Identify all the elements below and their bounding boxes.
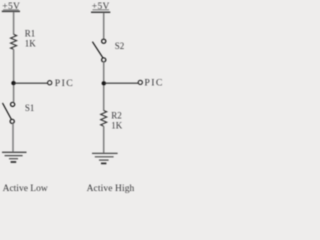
junction dot (right PIC node) bbox=[102, 81, 106, 85]
wire: R2 bottom to ground (right) bbox=[103, 126, 105, 153]
switch S2 bbox=[102, 39, 106, 43]
ground (left) bbox=[2, 151, 27, 153]
resistor R2 bbox=[101, 111, 107, 127]
resistor R1 bbox=[11, 34, 17, 49]
power bar +5V right bbox=[91, 11, 110, 13]
svg-text:PIC: PIC bbox=[55, 78, 74, 89]
svg-text:+5V: +5V bbox=[2, 2, 20, 12]
pin circle PIC (right) bbox=[138, 80, 142, 84]
power bar +5V left bbox=[2, 10, 20, 12]
svg-text:PIC: PIC bbox=[144, 78, 163, 89]
svg-text:S2: S2 bbox=[115, 41, 125, 51]
wire: R1 bottom to S1 top, through PIC junction bbox=[13, 49, 15, 102]
switch S1 bbox=[11, 102, 15, 106]
junction dot (left PIC node) bbox=[11, 81, 15, 85]
ground (right) bbox=[92, 152, 118, 154]
svg-text:R2: R2 bbox=[111, 111, 122, 121]
svg-text:1K: 1K bbox=[25, 39, 37, 49]
wire: S2 bottom to R2 top, through PIC junction bbox=[103, 62, 105, 111]
wire: junction to PIC pin circle (left) bbox=[14, 82, 48, 84]
pin circle PIC (left) bbox=[48, 81, 52, 85]
wire: S1 bottom to ground (left) bbox=[12, 124, 14, 152]
svg-text:Active Low: Active Low bbox=[3, 184, 48, 194]
svg-text:R1: R1 bbox=[25, 29, 36, 39]
wire: +5V bar to R1 top bbox=[13, 12, 15, 35]
svg-text:S1: S1 bbox=[25, 103, 35, 113]
wire: junction to PIC pin circle (right) bbox=[104, 82, 138, 84]
svg-text:Active High: Active High bbox=[87, 184, 135, 194]
svg-text:+5V: +5V bbox=[92, 2, 110, 12]
svg-text:1K: 1K bbox=[111, 120, 123, 130]
wire: +5V bar to S2 top bbox=[103, 13, 105, 39]
